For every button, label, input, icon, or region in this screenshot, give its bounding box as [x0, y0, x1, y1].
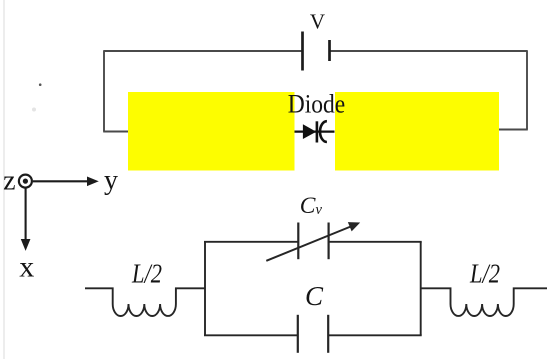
svg-text:V: V: [310, 10, 325, 34]
capacitor Cv right plate: [328, 223, 330, 260]
speck artifact (decorative): [39, 83, 42, 86]
wire top-right (battery to right terminal): [330, 50, 527, 52]
patch left (yellow): [128, 92, 295, 171]
svg-text:L/2: L/2: [131, 259, 162, 289]
wire left vertical: [103, 50, 105, 131]
coordinate axes origin circle (z out of page): [19, 175, 32, 188]
scan artifact edge line (decorative): [3, 0, 5, 359]
diode cathode curve: [320, 121, 327, 142]
variable capacitor arrow through Cv: [266, 223, 359, 261]
capacitor Cv left plate: [297, 223, 299, 260]
axis y arrow: [33, 177, 98, 185]
wire top-left (left terminal to battery): [104, 50, 302, 52]
wire right vertical: [526, 50, 528, 129]
battery V long plate (+): [301, 32, 304, 71]
box top wire left of Cv: [204, 241, 298, 243]
inductor L/2 left: [85, 288, 205, 316]
svg-text:L/2: L/2: [469, 259, 500, 289]
svg-text:y: y: [104, 165, 118, 196]
axes origin dot: [23, 179, 28, 184]
box left side: [204, 242, 206, 335]
axis x arrow: [22, 188, 30, 250]
capacitor C right plate: [327, 315, 329, 353]
diode D1 (varactor between patches): [295, 121, 335, 142]
svg-text:x: x: [19, 251, 34, 284]
capacitor C left plate: [297, 315, 299, 353]
box top wire right of Cv: [329, 241, 422, 243]
wire left feed to patch: [103, 131, 130, 133]
svg-text:Diode: Diode: [288, 90, 346, 119]
box right side: [420, 242, 422, 335]
battery V short plate (-): [328, 40, 331, 61]
svg-text:Cv: Cv: [300, 193, 323, 219]
diode cathode bar: [316, 121, 319, 142]
box bottom wire left of C: [204, 334, 298, 336]
svg-text:C: C: [305, 281, 324, 311]
box bottom wire right of C: [328, 334, 422, 336]
diode anode triangle: [303, 125, 315, 138]
patch right (yellow): [335, 92, 499, 171]
svg-text:z: z: [3, 166, 15, 197]
wire diode horizontal: [295, 130, 335, 132]
inductor L/2 right: [421, 288, 547, 316]
wire right feed to patch: [499, 129, 528, 131]
